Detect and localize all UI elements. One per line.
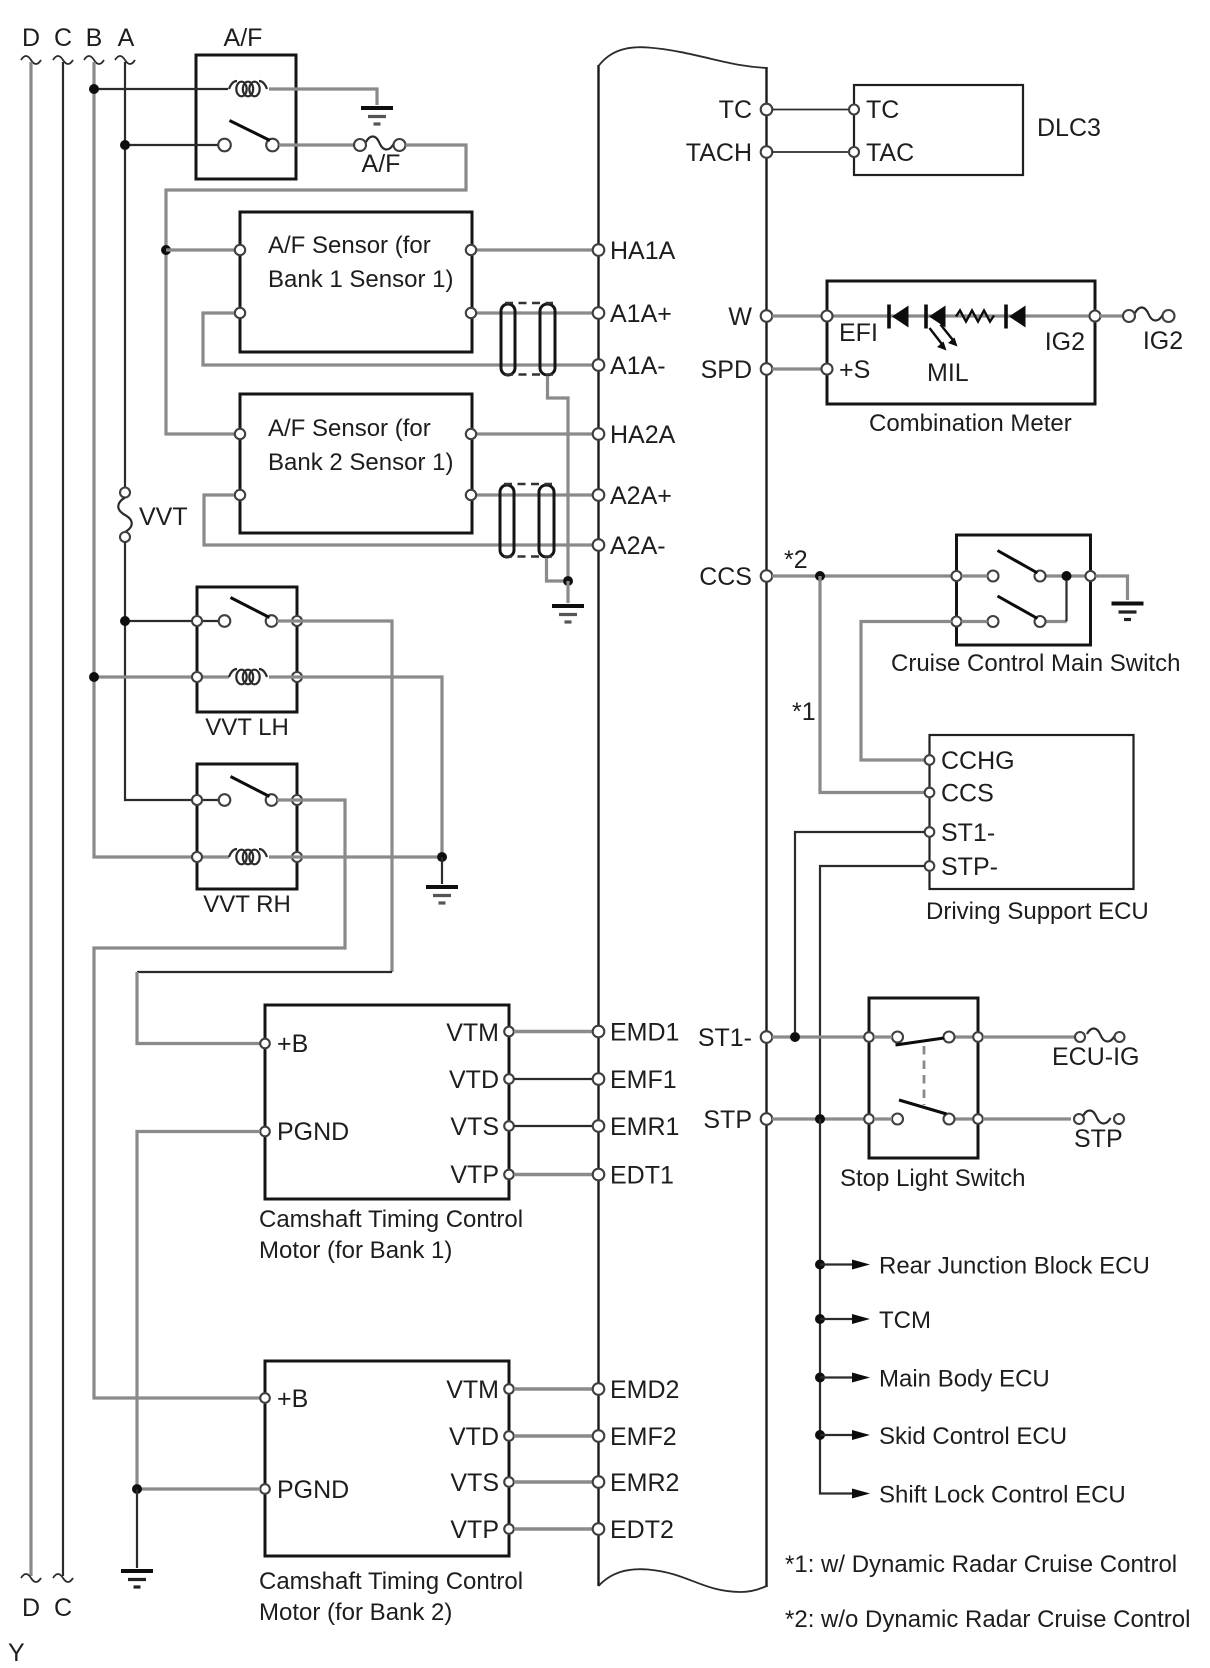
wire C break symbol top — [53, 56, 73, 64]
wire A lower segment to VVT RH switch — [125, 542, 219, 800]
junction on wire B at relay coil — [89, 84, 99, 94]
shielded cable symbol bank2 right braid — [539, 485, 554, 557]
arrow to rear junction block ECU — [820, 1263, 853, 1265]
fuse IG2 right terminal — [1163, 310, 1175, 322]
A/F sensor bank1 pin left top — [235, 245, 245, 255]
svg-text:Bank 2 Sensor 1): Bank 2 Sensor 1) — [268, 449, 453, 476]
svg-text:C: C — [54, 24, 72, 52]
svg-text:VTS: VTS — [450, 1469, 499, 1497]
wire B break symbol top — [84, 56, 104, 64]
cruise switch internal wire top — [962, 574, 988, 577]
svg-text:VTP: VTP — [450, 1516, 499, 1544]
wire bank2 shield drain — [547, 558, 564, 581]
diode 2 MIL — [926, 305, 946, 329]
svg-text:B: B — [86, 24, 103, 52]
wire VVT RH coil to common ground — [269, 855, 437, 858]
svg-text:Bank 1 Sensor 1): Bank 1 Sensor 1) — [268, 266, 453, 293]
camshaft bank2 pin +B — [260, 1393, 270, 1403]
stop light bottom contact left — [892, 1114, 903, 1125]
cruise switch pin right — [1086, 571, 1096, 581]
ECU pin EMD2 — [593, 1383, 605, 1395]
svg-text:PGND: PGND — [277, 1476, 349, 1504]
ECU pin A1A+ — [593, 307, 605, 319]
svg-text:Skid Control ECU: Skid Control ECU — [879, 1423, 1067, 1450]
relay VVT RH switch pin left — [192, 795, 202, 805]
wire B to relay coil — [94, 88, 228, 90]
svg-text:*2: w/o Dynamic Radar Cruise C: *2: w/o Dynamic Radar Cruise Control — [785, 1606, 1190, 1633]
wire VVT LH switch to bank1 motor +B — [277, 621, 392, 972]
ECU pin EMD1 — [593, 1026, 605, 1038]
svg-text:D: D — [22, 1594, 40, 1622]
camshaft bank1 pin +B — [260, 1039, 270, 1049]
wire A to relay switch — [125, 144, 218, 146]
svg-text:*1: *1 — [792, 698, 816, 726]
ECU left edge — [597, 65, 599, 1586]
svg-text:CCHG: CCHG — [941, 747, 1015, 775]
fuse A/F left terminal — [354, 139, 366, 151]
svg-text:IG2: IG2 — [1143, 327, 1183, 355]
fuse STP left terminal — [1074, 1114, 1084, 1124]
junction feed to bank1 sensor — [161, 245, 171, 255]
camshaft timing control motor bank2 box — [265, 1361, 509, 1556]
svg-text:ST1-: ST1- — [698, 1024, 752, 1052]
relay VVT LH coil pin right — [292, 672, 302, 682]
ECU pin A1A- — [593, 359, 605, 371]
wire VVT RH switch to bank2 motor +B — [94, 800, 345, 1398]
driving support pin ST1- — [925, 827, 935, 837]
svg-text:+B: +B — [277, 1030, 308, 1058]
ECU pin EDT1 — [593, 1169, 605, 1181]
A/F sensor bank1 box — [240, 212, 472, 352]
arrow to TCM — [820, 1318, 853, 1320]
ECU torn top edge — [599, 47, 767, 68]
cruise switch top contact left — [988, 571, 999, 582]
shielded cable symbol bank2 dashed bottom — [504, 555, 552, 558]
wire ST1- to junction — [795, 832, 925, 1032]
wire VVT LH switch jog — [137, 971, 392, 973]
cruise switch pin left bottom — [952, 617, 962, 627]
cruise switch top arm — [998, 551, 1038, 574]
ECU pin EDT2 — [593, 1523, 605, 1535]
camshaft bank2 pin PGND — [260, 1484, 270, 1494]
svg-text:STP: STP — [703, 1106, 752, 1134]
wire TACH to DLC3 — [772, 151, 849, 153]
ECU pin EMR1 — [593, 1120, 605, 1132]
relay VVT RH coil — [229, 849, 267, 864]
junction TCM — [815, 1314, 825, 1324]
svg-text:EMF2: EMF2 — [610, 1423, 677, 1451]
relay A/F coil — [229, 81, 267, 96]
svg-text:VVT LH: VVT LH — [205, 714, 289, 741]
stop light bottom arm — [899, 1100, 947, 1114]
wire STP junction down to ECU list — [820, 1119, 853, 1494]
wire CCS branch to driving support ECU — [820, 576, 925, 793]
stop light switch box — [869, 998, 978, 1158]
svg-text:+S: +S — [839, 356, 870, 384]
svg-text:EMD1: EMD1 — [610, 1019, 679, 1047]
svg-text:EMF1: EMF1 — [610, 1066, 677, 1094]
wire down to bank1 motor +B — [137, 972, 260, 1044]
wire ECU ST1- to stop light switch — [772, 1035, 864, 1038]
svg-text:Shift Lock Control ECU: Shift Lock Control ECU — [879, 1482, 1126, 1509]
svg-text:VTD: VTD — [449, 1066, 499, 1094]
stop light top arm — [896, 1038, 945, 1045]
relay VVT RH coil pin right — [292, 852, 302, 862]
svg-text:VTD: VTD — [449, 1423, 499, 1451]
relay VVT LH switch pin right — [292, 616, 302, 626]
svg-text:HA1A: HA1A — [610, 237, 676, 265]
junction STP — [815, 1114, 825, 1124]
wire D vertical bus — [29, 62, 32, 1576]
wire bank2 A2A+ — [477, 493, 593, 496]
A/F sensor bank2 pin left bottom — [235, 490, 245, 500]
svg-text:A/F: A/F — [224, 24, 263, 52]
wire bank1 shield drain — [548, 376, 569, 576]
wire VTS to EMR2 — [514, 1480, 593, 1484]
svg-text:STP-: STP- — [941, 853, 998, 881]
svg-text:Stop Light Switch: Stop Light Switch — [840, 1165, 1025, 1192]
wire C break symbol bottom — [53, 1574, 73, 1582]
fuse STP right terminal — [1114, 1114, 1124, 1124]
shielded cable symbol bank2 left braid — [500, 485, 514, 557]
cruise switch top contact right — [1035, 571, 1046, 582]
wire bank1 minus loop to A1A- — [203, 313, 593, 365]
wire cruise bottom link — [1065, 580, 1067, 622]
wire A vertical bus upper segment to VVT fuse — [124, 62, 126, 487]
shielded cable symbol bank1 dashed bottom — [505, 373, 553, 376]
wire cruise bottom to CCHG — [861, 622, 952, 761]
junction CCS branch — [815, 571, 825, 581]
wire VTP to EDT2 — [514, 1527, 593, 1531]
stop light internal wire top — [874, 1035, 892, 1038]
svg-text:A: A — [118, 24, 135, 52]
arrow to shift lock control ECU — [852, 1489, 870, 1499]
svg-text:Main Body ECU: Main Body ECU — [879, 1366, 1050, 1393]
camshaft timing control motor bank1 box — [265, 1005, 509, 1199]
svg-text:IG2: IG2 — [1045, 328, 1085, 356]
combination meter internal wire — [833, 314, 1089, 317]
ground for relay coil — [361, 108, 393, 124]
wire relay coil to ground — [269, 89, 377, 105]
svg-text:VTM: VTM — [446, 1019, 499, 1047]
camshaft bank1 pin PGND — [260, 1127, 270, 1137]
relay VVT RH box — [197, 764, 297, 889]
shielded cable symbol bank1 dashed top — [505, 302, 553, 305]
relay VVT LH coil pin left — [192, 672, 202, 682]
driving support ECU box — [930, 735, 1134, 889]
svg-text:EMR1: EMR1 — [610, 1113, 679, 1141]
junction skid control ECU — [815, 1430, 825, 1440]
wire D break symbol top — [21, 56, 41, 64]
cruise switch pin left top — [952, 571, 962, 581]
wire cruise switch to ground — [1096, 576, 1128, 600]
svg-text:EDT2: EDT2 — [610, 1516, 674, 1544]
wire VTM to EMD2 — [514, 1387, 593, 1391]
ECU pin HA1A — [593, 244, 605, 256]
ECU right edge — [765, 67, 767, 1587]
relay A/F switch contact left — [218, 139, 231, 152]
svg-text:TCM: TCM — [879, 1307, 931, 1334]
wire CCS to cruise switch — [772, 574, 951, 577]
wire VTD to EMF2 — [514, 1434, 593, 1438]
cruise switch bottom contact left — [988, 616, 999, 627]
svg-text:HA2A: HA2A — [610, 421, 676, 449]
wire meter to fuse IG2 — [1100, 314, 1123, 317]
svg-text:VTS: VTS — [450, 1113, 499, 1141]
svg-text:ST1-: ST1- — [941, 819, 995, 847]
fuse ECU-IG left terminal — [1075, 1032, 1085, 1042]
driving support pin CCHG — [925, 755, 935, 765]
svg-text:TC: TC — [866, 96, 899, 124]
fuse STP element — [1083, 1110, 1111, 1123]
camshaft bank2 pin VTS — [504, 1477, 514, 1487]
ECU pin A2A+ — [593, 489, 605, 501]
svg-text:VVT RH: VVT RH — [203, 891, 291, 918]
fuse A/F right terminal — [394, 139, 406, 151]
junction ST1- — [790, 1032, 800, 1042]
wire PGND rail to ground — [136, 1489, 138, 1568]
relay VVT LH coil — [229, 669, 267, 684]
wire VVT LH coil to common ground — [269, 677, 442, 852]
connector DLC3 box — [854, 85, 1023, 175]
shielded cable symbol bank2 dashed top — [504, 483, 552, 486]
fuse ECU-IG element — [1087, 1028, 1115, 1041]
DLC3 pin TAC — [849, 147, 859, 157]
resistor in meter — [956, 311, 994, 322]
svg-text:TAC: TAC — [866, 139, 914, 167]
svg-text:PGND: PGND — [277, 1118, 349, 1146]
svg-text:SPD: SPD — [701, 356, 752, 384]
wire relay switch to fuse — [279, 143, 354, 146]
relay VVT RH switch contact right — [266, 794, 278, 806]
relay A/F switch contact right — [266, 139, 279, 152]
wire B branch to VVT LH coil — [94, 675, 229, 678]
svg-text:EFI: EFI — [839, 319, 878, 347]
A/F sensor bank2 pin left top — [235, 429, 245, 439]
svg-text:VTM: VTM — [446, 1376, 499, 1404]
relay A/F switch arm — [230, 121, 271, 141]
svg-text:A2A+: A2A+ — [610, 482, 672, 510]
svg-text:A/F: A/F — [362, 150, 401, 178]
wire feed branch to bank1 sensor — [166, 248, 234, 251]
ECU pin A2A- — [593, 539, 605, 551]
svg-text:D: D — [22, 24, 40, 52]
arrow to main body ECU — [820, 1376, 853, 1378]
junction on wire B at VVT LH coil — [89, 672, 99, 682]
wire bank2 HA2A — [477, 432, 593, 435]
svg-text:EDT1: EDT1 — [610, 1162, 674, 1190]
wire A break symbol top — [115, 56, 135, 64]
ground for shield drains — [552, 606, 584, 622]
stop light internal wire bottom — [874, 1117, 892, 1120]
diode 3 — [1006, 305, 1026, 329]
relay VVT RH switch arm — [231, 777, 270, 797]
MIL emission arrows — [930, 325, 958, 351]
fuse ECU-IG right terminal — [1115, 1032, 1125, 1042]
junction PGND rail — [132, 1484, 142, 1494]
stop light mechanical link dashed — [923, 1046, 926, 1105]
wire VTD to EMF1 — [514, 1078, 593, 1080]
camshaft bank1 pin VTD — [504, 1074, 514, 1084]
wire bank2 minus loop to A2A- — [204, 495, 593, 545]
A/F sensor bank1 pin right bottom — [466, 308, 476, 318]
A/F sensor bank1 pin left bottom — [235, 308, 245, 318]
svg-text:Camshaft Timing Control: Camshaft Timing Control — [259, 1568, 523, 1595]
fuse VVT bottom terminal — [120, 532, 130, 542]
junction cruise top row — [1062, 571, 1072, 581]
junction shield drains — [563, 576, 573, 586]
fuse VVT element — [118, 498, 132, 533]
driving support pin STP- — [925, 861, 935, 871]
camshaft bank1 pin VTS — [504, 1121, 514, 1131]
wire bank2 PGND branch — [137, 1487, 260, 1490]
ECU pin EMF1 — [593, 1073, 605, 1085]
svg-text:Combination Meter: Combination Meter — [869, 410, 1072, 437]
svg-text:Camshaft Timing Control: Camshaft Timing Control — [259, 1206, 523, 1233]
junction rear junction block — [815, 1260, 825, 1270]
shielded cable symbol bank1 right braid — [540, 304, 555, 375]
svg-text:A1A+: A1A+ — [610, 300, 672, 328]
wire A branch to VVT LH switch — [125, 620, 219, 622]
svg-text:EMD2: EMD2 — [610, 1376, 679, 1404]
combination meter box — [827, 281, 1095, 404]
stop light top contact right — [944, 1032, 955, 1043]
A/F sensor bank1 pin right top — [466, 245, 476, 255]
stop light pin left top — [864, 1032, 874, 1042]
wire fuse A/F to A/F sensors feed — [166, 145, 466, 434]
ECU pin EMF2 — [593, 1430, 605, 1442]
svg-text:A1A-: A1A- — [610, 352, 666, 380]
stop light pin left bottom — [864, 1114, 874, 1124]
wire D break symbol bottom — [21, 1574, 41, 1582]
svg-text:C: C — [54, 1594, 72, 1622]
relay VVT LH box — [197, 587, 297, 712]
relay VVT RH switch contact left — [219, 794, 231, 806]
svg-text:CCS: CCS — [699, 563, 752, 591]
combination meter pin EFI — [822, 311, 833, 322]
ground for VVT coils — [426, 887, 458, 903]
ground for PGND rail — [121, 1571, 153, 1587]
diode 1 — [889, 305, 909, 329]
DLC3 pin TC — [849, 105, 859, 115]
relay VVT LH switch pin left — [192, 616, 202, 626]
wire bank1 A1A+ — [477, 311, 593, 314]
A/F sensor bank2 pin right bottom — [466, 490, 476, 500]
fuse IG2 left terminal — [1123, 310, 1135, 322]
stop light top contact left — [892, 1032, 903, 1043]
junction on wire A at relay switch — [120, 140, 130, 150]
camshaft bank2 pin VTD — [504, 1431, 514, 1441]
relay VVT LH switch contact left — [219, 615, 231, 627]
fuse VVT top terminal — [120, 488, 130, 498]
wire STP- to junction — [820, 866, 925, 1114]
svg-text:Motor (for Bank 1): Motor (for Bank 1) — [259, 1237, 452, 1264]
cruise switch internal wire bottom — [962, 620, 988, 623]
wire W to combination meter — [772, 314, 822, 317]
junction main body ECU — [815, 1373, 825, 1383]
svg-text:CCS: CCS — [941, 780, 994, 808]
wire VTM to EMD1 — [514, 1030, 593, 1034]
A/F sensor bank2 box — [240, 394, 472, 533]
svg-text:Driving Support ECU: Driving Support ECU — [926, 898, 1149, 925]
svg-text:VTP: VTP — [450, 1161, 499, 1189]
svg-text:*1: w/ Dynamic Radar Cruise Co: *1: w/ Dynamic Radar Cruise Control — [785, 1551, 1177, 1578]
camshaft bank1 pin VTM — [504, 1027, 514, 1037]
stop light bottom contact right — [944, 1114, 955, 1125]
svg-text:A/F Sensor (for: A/F Sensor (for — [268, 415, 431, 442]
svg-text:A2A-: A2A- — [610, 532, 666, 560]
fuse A/F element — [366, 136, 394, 149]
wire bank1 PGND to ground rail — [137, 1132, 260, 1485]
wire B vertical bus to VVT RH coil — [94, 62, 229, 857]
svg-text:A/F Sensor (for: A/F Sensor (for — [268, 232, 431, 259]
junction VVT coils ground — [437, 852, 447, 862]
svg-text:DLC3: DLC3 — [1037, 114, 1101, 142]
svg-text:VVT: VVT — [139, 503, 188, 531]
relay VVT LH switch contact right — [266, 615, 278, 627]
ECU pin HA2A — [593, 428, 605, 440]
combination meter pin +S — [822, 364, 833, 375]
wire bank1 HA1A — [477, 248, 593, 251]
svg-text:Y: Y — [8, 1639, 25, 1667]
camshaft bank2 pin VTM — [504, 1384, 514, 1394]
svg-text:Cruise Control Main Switch: Cruise Control Main Switch — [891, 650, 1180, 677]
ground for cruise switch — [1112, 604, 1144, 620]
stop light pin right bottom — [973, 1114, 983, 1124]
svg-text:Motor (for Bank 2): Motor (for Bank 2) — [259, 1599, 452, 1626]
wire shield junction to ground — [566, 581, 569, 603]
camshaft bank1 pin VTP — [504, 1170, 514, 1180]
wire C vertical bus — [62, 62, 64, 1576]
A/F sensor bank2 pin right top — [466, 429, 476, 439]
wire VTP to EDT1 — [514, 1173, 593, 1177]
wire VTS to EMR1 — [514, 1125, 593, 1127]
svg-text:EMR2: EMR2 — [610, 1469, 679, 1497]
wire stop light to fuse STP — [983, 1117, 1071, 1120]
wire ECU STP to stop light switch — [772, 1117, 864, 1120]
svg-text:TACH: TACH — [686, 139, 752, 167]
svg-text:*2: *2 — [784, 546, 808, 574]
ECU torn bottom edge — [599, 1569, 767, 1592]
relay VVT RH switch pin right — [292, 795, 302, 805]
wire junction to VVT ground — [441, 857, 443, 884]
cruise control main switch box — [957, 535, 1091, 645]
relay VVT RH coil pin left — [192, 852, 202, 862]
wire stop light to fuse ECU-IG — [983, 1035, 1075, 1038]
wire TC to DLC3 — [772, 109, 849, 111]
combination meter pin IG2 — [1090, 311, 1101, 322]
relay A/F box — [196, 55, 296, 179]
svg-text:STP: STP — [1074, 1125, 1123, 1153]
svg-text:+B: +B — [277, 1385, 308, 1413]
cruise switch bottom arm — [998, 596, 1038, 619]
svg-text:ECU-IG: ECU-IG — [1052, 1043, 1140, 1071]
cruise switch bottom contact right — [1035, 616, 1046, 627]
svg-text:TC: TC — [719, 96, 752, 124]
wire SPD to combination meter — [772, 367, 822, 370]
svg-text:MIL: MIL — [927, 359, 969, 387]
fuse IG2 element — [1135, 307, 1163, 320]
relay VVT LH switch arm — [231, 598, 270, 618]
stop light pin right top — [973, 1032, 983, 1042]
ECU pin EMR2 — [593, 1476, 605, 1488]
junction on wire A at VVT LH switch — [120, 616, 130, 626]
svg-text:W: W — [728, 303, 752, 331]
arrow to skid control ECU — [820, 1434, 853, 1436]
driving support pin CCS — [925, 788, 935, 798]
shielded cable symbol bank1 left braid — [501, 304, 515, 375]
camshaft bank2 pin VTP — [504, 1524, 514, 1534]
